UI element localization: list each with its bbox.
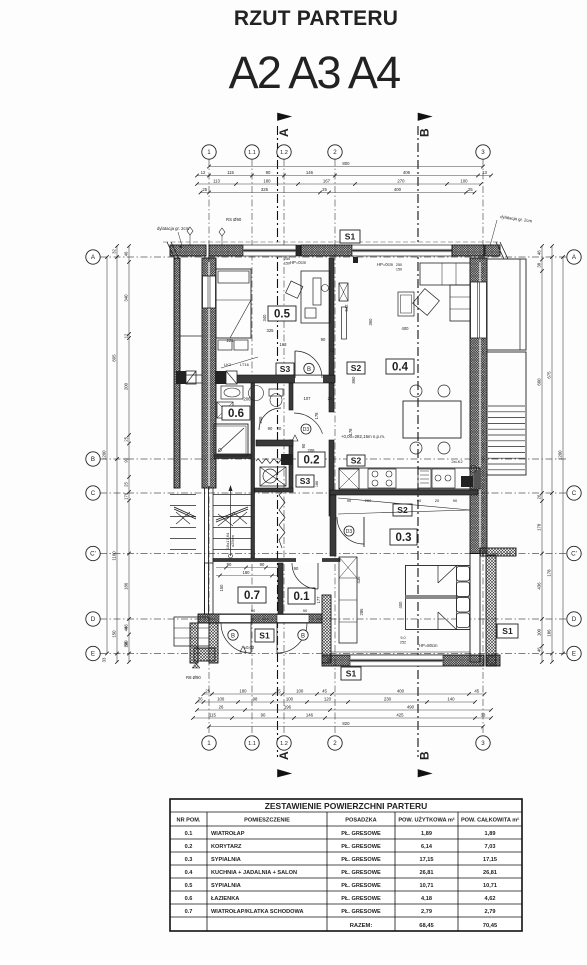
svg-text:HP=0cm: HP=0cm (377, 262, 394, 267)
svg-text:436: 436 (537, 582, 542, 590)
desk in room 0.5 (301, 271, 330, 323)
svg-text:HP=0cm: HP=0cm (290, 260, 307, 265)
svg-text:2: 2 (333, 149, 337, 156)
svg-text:1.2: 1.2 (280, 741, 288, 747)
svg-text:KORYTARZ: KORYTARZ (211, 844, 242, 850)
svg-text:98: 98 (253, 697, 258, 702)
section flag B bottom (418, 770, 432, 778)
bedroom 0.3 floor line above bottom wall (331, 651, 470, 653)
corridor wall piece lower (289, 440, 293, 492)
svg-text:425: 425 (396, 713, 404, 718)
svg-text:163: 163 (280, 342, 288, 347)
pier in top wall (296, 245, 301, 256)
staircase going line with arrow (230, 487, 232, 556)
svg-text:25: 25 (124, 482, 129, 487)
neighbour entry porch bottom-left (174, 617, 209, 646)
svg-text:146: 146 (306, 170, 314, 175)
window in top wall (room 0.4) (352, 245, 452, 256)
svg-text:1,89: 1,89 (485, 831, 496, 837)
svg-text:0.5: 0.5 (185, 883, 193, 889)
dining table (403, 401, 461, 438)
svg-text:186: 186 (315, 481, 319, 487)
svg-text:90: 90 (321, 337, 326, 342)
staircase treads (213, 494, 251, 496)
svg-text:S1: S1 (259, 631, 270, 641)
washbasin (221, 386, 243, 399)
svg-text:68,45: 68,45 (419, 923, 434, 929)
svg-text:4,18: 4,18 (421, 896, 432, 902)
svg-text:0.4: 0.4 (392, 362, 409, 374)
svg-text:C': C' (571, 551, 577, 558)
svg-text:0.3: 0.3 (185, 857, 193, 863)
porch left wall hatched (209, 623, 218, 663)
svg-text:542: 542 (344, 304, 349, 312)
svg-text:250: 250 (396, 263, 402, 267)
interior wall under room 0.5 (216, 375, 335, 383)
top exterior wall with hatching (170, 245, 206, 256)
svg-text:3: 3 (481, 740, 485, 747)
left exterior wall of unit (202, 258, 216, 488)
svg-text:26: 26 (219, 705, 224, 710)
svg-text:±0,02: ±0,02 (244, 645, 255, 650)
svg-text:S1: S1 (502, 626, 513, 636)
roof overhang dashed line above top wall (163, 241, 500, 243)
svg-text:45: 45 (474, 689, 479, 694)
svg-text:200: 200 (124, 382, 129, 390)
label S3 lower (296, 475, 314, 487)
svg-text:177: 177 (316, 596, 321, 604)
svg-text:178: 178 (314, 412, 319, 420)
door 0.5 to hall S3 (295, 351, 322, 378)
svg-text:860: 860 (351, 376, 356, 384)
svg-text:S3: S3 (300, 476, 311, 486)
svg-text:178: 178 (124, 492, 129, 500)
window in bottom wall of 0.3 (350, 655, 443, 666)
svg-text:70,45: 70,45 (483, 923, 498, 929)
dining chairs (410, 385, 422, 397)
svg-text:90: 90 (294, 566, 299, 571)
svg-text:B: B (301, 633, 305, 639)
wardrobe in 0.3 (339, 557, 357, 643)
wall right of bathroom (251, 383, 255, 558)
svg-text:115: 115 (209, 713, 216, 718)
sink unit (418, 469, 431, 488)
svg-text:10,71: 10,71 (420, 883, 434, 889)
coffee table (398, 292, 414, 316)
svg-text:178: 178 (537, 523, 542, 531)
svg-text:196: 196 (284, 705, 292, 710)
svg-text:9,0: 9,0 (400, 636, 405, 640)
svg-text:0.1: 0.1 (185, 831, 193, 837)
svg-text:150: 150 (219, 584, 224, 592)
svg-text:325: 325 (267, 328, 275, 333)
svg-text:115: 115 (227, 170, 234, 175)
svg-text:RS Ø90: RS Ø90 (226, 217, 242, 222)
svg-text:25: 25 (276, 689, 281, 694)
svg-text:HP=80cm: HP=80cm (419, 643, 438, 648)
svg-text:A2 A3 A4: A2 A3 A4 (229, 47, 401, 98)
svg-text:1.1: 1.1 (248, 150, 256, 156)
svg-text:260: 260 (365, 498, 372, 503)
label S2 in 0.3 (393, 504, 412, 516)
right dimension chains (541, 246, 543, 662)
svg-text:0.7: 0.7 (244, 590, 260, 602)
svg-text:E: E (91, 651, 95, 658)
svg-text:25: 25 (202, 187, 207, 192)
svg-text:400: 400 (398, 601, 403, 609)
svg-text:46: 46 (537, 647, 542, 652)
svg-text:436: 436 (356, 576, 361, 584)
svg-text:0.2: 0.2 (304, 455, 320, 467)
door from 0.2 to 0.1 (292, 563, 318, 589)
svg-text:2: 2 (333, 740, 337, 747)
washing machine (217, 402, 233, 418)
svg-text:SYPIALNIA: SYPIALNIA (211, 883, 241, 889)
left dimension chains (128, 246, 130, 662)
svg-text:POW. CAŁKOWITA m²: POW. CAŁKOWITA m² (461, 817, 519, 824)
armchair rotated (413, 289, 440, 316)
neighbour A3 stairwell outline right (487, 259, 526, 350)
wall above rooms 0.7/0.1 (213, 559, 340, 562)
svg-text:90: 90 (261, 713, 266, 718)
svg-text:12: 12 (330, 348, 335, 353)
svg-text:0.2: 0.2 (185, 844, 193, 850)
svg-text:1: 1 (207, 740, 211, 747)
label S1 bottom (341, 667, 361, 680)
svg-text:2xLK2: 2xLK2 (451, 459, 463, 464)
svg-text:PŁ. GRESOWE: PŁ. GRESOWE (341, 831, 381, 837)
svg-text:1.2: 1.2 (280, 150, 288, 156)
fridge (339, 469, 359, 489)
bottom wall of bedroom 0.3 (322, 655, 484, 666)
label S1 porch (255, 629, 274, 642)
kitchen counter (339, 468, 480, 489)
entry door circles B (228, 630, 238, 640)
svg-text:146: 146 (306, 713, 314, 718)
svg-text:895: 895 (112, 354, 117, 362)
svg-text:0.7: 0.7 (185, 909, 193, 915)
svg-text:90: 90 (301, 443, 306, 448)
wall between 0.5 and 0.4 on axis 2 (329, 258, 334, 375)
dark appliance LK2 (461, 476, 473, 487)
svg-text:252: 252 (400, 641, 406, 645)
svg-text:140: 140 (447, 697, 455, 702)
neighbour A1 wall stubs (180, 335, 202, 337)
svg-text:180: 180 (243, 570, 251, 575)
break marks top-right wall end (496, 242, 504, 259)
section flag A top (278, 113, 292, 121)
area table ZESTAWIENIE POWIERZCHNI PARTERU (170, 799, 522, 931)
svg-text:180: 180 (263, 179, 271, 184)
svg-text:RAZEM:: RAZEM: (350, 923, 373, 929)
bed sheet folds (437, 566, 439, 584)
svg-text:820: 820 (342, 721, 350, 726)
sofa L-shaped (420, 263, 470, 285)
anchor diamonds on top wall (187, 227, 193, 235)
bedside tables under bed (218, 340, 232, 350)
svg-text:100: 100 (537, 628, 542, 636)
svg-text:0.6: 0.6 (185, 896, 193, 902)
neighbour staircase treads (170, 494, 196, 496)
svg-text:2,79: 2,79 (485, 909, 496, 915)
svg-text:D: D (572, 616, 577, 623)
svg-text:186: 186 (124, 582, 129, 590)
svg-text:46: 46 (124, 251, 129, 256)
svg-text:S1: S1 (346, 669, 357, 679)
room label 0.5 (268, 306, 296, 321)
round fixture (249, 386, 264, 401)
label S1 top (340, 230, 360, 243)
svg-text:0.4: 0.4 (185, 870, 194, 876)
svg-text:90: 90 (124, 457, 129, 462)
svg-text:6,14: 6,14 (421, 844, 433, 850)
hob with 4 burners (368, 469, 396, 488)
svg-text:230: 230 (384, 697, 392, 702)
svg-text:90: 90 (347, 498, 352, 503)
svg-text:33: 33 (481, 713, 486, 718)
door circle D3 (301, 424, 311, 434)
svg-text:POMIESZCZENIE: POMIESZCZENIE (244, 818, 290, 824)
shaft square with circle in landing (260, 467, 286, 486)
svg-text:180: 180 (239, 689, 247, 694)
horizontal grid axes (100, 256, 567, 258)
svg-text:270: 270 (397, 179, 405, 184)
svg-text:LK2: LK2 (224, 362, 232, 367)
svg-text:325: 325 (261, 187, 269, 192)
svg-text:45: 45 (322, 689, 327, 694)
svg-text:S2: S2 (351, 456, 362, 466)
svg-text:B: B (418, 751, 432, 760)
svg-text:S2: S2 (397, 505, 408, 515)
label S2 kitchen (347, 455, 365, 466)
svg-text:E: E (572, 651, 576, 658)
wall stub at C' right (480, 548, 516, 556)
svg-text:A: A (277, 751, 291, 760)
svg-text:25: 25 (205, 689, 210, 694)
svg-text:150: 150 (284, 262, 290, 266)
svg-text:17,15: 17,15 (420, 857, 434, 863)
svg-text:A: A (277, 128, 291, 137)
svg-text:90: 90 (227, 562, 232, 567)
break marks top-left wall end (167, 242, 175, 259)
svg-text:ŁAZIENKA: ŁAZIENKA (211, 896, 239, 902)
svg-text:7,03: 7,03 (485, 844, 496, 850)
window in right wall room 0.4 (471, 282, 487, 338)
svg-text:38: 38 (537, 262, 542, 267)
section line B-B (417, 126, 419, 757)
door circle D3 bedroom (344, 526, 354, 536)
svg-text:26,81: 26,81 (483, 870, 497, 876)
svg-text:90: 90 (453, 498, 458, 503)
stairwell party wall thin lines (204, 488, 206, 614)
top dimension chains (209, 166, 483, 168)
svg-text:167: 167 (323, 179, 331, 184)
svg-text:250: 250 (284, 257, 290, 261)
svg-text:WIATROŁAP/KLATKA SCHODOWA: WIATROŁAP/KLATKA SCHODOWA (211, 909, 304, 915)
svg-text:208: 208 (258, 416, 263, 424)
svg-text:46: 46 (537, 250, 542, 255)
door 0.3 (337, 517, 364, 544)
grid bubbles left (86, 250, 100, 264)
bed in room 0.5 (216, 269, 251, 338)
svg-text:C: C (572, 490, 577, 497)
WC (269, 389, 283, 396)
room label 0.1 (288, 588, 315, 604)
top wall beyond axis 3 (unit A3) (485, 245, 500, 256)
svg-text:340: 340 (262, 314, 267, 322)
svg-text:PŁ. GRESOWE: PŁ. GRESOWE (341, 844, 381, 850)
svg-text:B: B (231, 633, 235, 639)
flue boxes in wall (215, 371, 226, 384)
svg-text:10,71: 10,71 (483, 883, 497, 889)
svg-text:PŁ. GRESOWE: PŁ. GRESOWE (341, 857, 381, 863)
bathroom door (259, 408, 281, 430)
svg-text:POSADZKA: POSADZKA (345, 818, 376, 824)
neighbour porch hatch (194, 648, 215, 661)
svg-text:90: 90 (303, 608, 308, 613)
svg-text:NR POM.: NR POM. (177, 818, 201, 824)
svg-text:S1: S1 (345, 232, 356, 242)
svg-text:4,62: 4,62 (485, 896, 496, 902)
wall left of bedroom 0.3 (330, 495, 336, 556)
svg-text:100: 100 (286, 697, 294, 702)
svg-text:33: 33 (102, 657, 107, 662)
svg-text:RZUT PARTERU: RZUT PARTERU (234, 7, 398, 30)
svg-text:KUCHNIA + JADALNIA + SALON: KUCHNIA + JADALNIA + SALON (211, 870, 297, 876)
bathroom bottom wall (214, 454, 251, 459)
svg-text:800: 800 (342, 161, 350, 166)
porch right wall hatched (322, 595, 331, 663)
svg-text:120: 120 (324, 697, 332, 702)
room 0.7 left wall (205, 563, 214, 614)
svg-text:25: 25 (124, 436, 129, 441)
flue stub below window (353, 257, 358, 263)
horizontal break zigzag on landing (256, 459, 288, 464)
svg-text:178: 178 (348, 428, 353, 436)
room label 0.6 (222, 406, 250, 420)
svg-text:3: 3 (481, 149, 485, 156)
svg-text:LT16: LT16 (240, 362, 250, 367)
section line A-A (277, 126, 279, 757)
svg-text:WIATROŁAP: WIATROŁAP (211, 831, 245, 837)
svg-text:1: 1 (207, 149, 211, 156)
svg-text:D3: D3 (346, 529, 353, 535)
svg-text:90: 90 (260, 562, 265, 567)
svg-text:0.1: 0.1 (294, 591, 311, 603)
svg-text:20: 20 (277, 426, 282, 431)
svg-text:286: 286 (359, 608, 364, 616)
wall axis C between 0.4 and 0.3 (330, 490, 478, 495)
svg-text:SYPIALNIA: SYPIALNIA (211, 857, 241, 863)
svg-text:100: 100 (296, 689, 304, 694)
svg-text:90: 90 (266, 170, 271, 175)
entry doors with arcs (221, 623, 251, 653)
svg-text:R8 Ø90: R8 Ø90 (186, 675, 201, 680)
svg-text:490: 490 (407, 705, 415, 710)
label S2 at axis 2 (347, 362, 365, 374)
left neighbour wall A1 (174, 258, 180, 488)
right wall lower part along bedroom 0.3 (470, 554, 480, 663)
stairwell inner line (519, 259, 521, 350)
svg-text:113: 113 (213, 179, 220, 184)
svg-text:360: 360 (368, 318, 373, 326)
WC nook wall (289, 383, 293, 410)
wall axis 2 lower (corridor/kitchen to 0.4) (329, 383, 334, 412)
svg-text:1100: 1100 (112, 551, 117, 561)
staircase handrail (216, 507, 248, 520)
svg-text:B: B (91, 456, 95, 463)
wall between 0.7 and 0.1 (278, 563, 283, 614)
neighbour staircase handrail (174, 507, 196, 517)
room label 0.2 (298, 452, 325, 467)
section flag A bottom (278, 770, 292, 778)
chair at desk (286, 281, 303, 298)
window in top wall (room 0.5) (243, 245, 296, 256)
svg-text:675: 675 (547, 371, 552, 379)
svg-text:36: 36 (198, 697, 203, 702)
grid bubbles bottom (202, 736, 216, 750)
svg-text:D: D (91, 616, 96, 623)
svg-text:400: 400 (394, 187, 402, 192)
svg-text:660: 660 (537, 378, 542, 386)
door symbol circle B upper (304, 363, 314, 373)
vertical grid axes (208, 159, 210, 736)
window in left wall room 0.5 (203, 276, 216, 308)
entry wall at axis D (198, 614, 322, 623)
svg-text:ZESTAWIENIE POWIERZCHNI PARTER: ZESTAWIENIE POWIERZCHNI PARTERU (265, 801, 428, 811)
double bed in 0.3 (406, 566, 471, 630)
right exterior wall of unit / party wall (470, 258, 487, 554)
svg-text:223: 223 (227, 338, 235, 343)
neighbour porch left wall hatched (190, 623, 198, 663)
svg-text:13: 13 (482, 170, 487, 175)
bottom wall beyond axis 3 (486, 655, 500, 666)
svg-text:B: B (418, 128, 432, 137)
dim chains inside 0.7 (216, 567, 277, 569)
svg-text:PŁ. GRESOWE: PŁ. GRESOWE (341, 883, 381, 889)
svg-text:0.6: 0.6 (228, 408, 244, 420)
svg-text:25: 25 (468, 187, 473, 192)
svg-text:26,81: 26,81 (420, 870, 434, 876)
break zigzag line in corridor (279, 492, 285, 548)
room label 0.7 (238, 587, 266, 603)
svg-text:107: 107 (304, 396, 312, 401)
svg-text:100: 100 (460, 179, 468, 184)
room label 0.4 (386, 359, 414, 374)
svg-text:208: 208 (308, 448, 316, 453)
svg-text:25: 25 (328, 396, 333, 401)
svg-text:0.5: 0.5 (274, 309, 291, 321)
grid bubbles right (567, 250, 581, 264)
svg-text:C': C' (90, 551, 96, 558)
neighbour A3 stair treads (488, 405, 525, 407)
label S1 right (497, 624, 518, 638)
svg-text:400: 400 (397, 689, 405, 694)
svg-text:x25cm: x25cm (230, 534, 235, 546)
TV bar (342, 307, 347, 339)
svg-text:1200: 1200 (558, 450, 563, 460)
svg-text:100: 100 (217, 697, 225, 702)
svg-text:PŁ. GRESOWE: PŁ. GRESOWE (341, 896, 381, 902)
svg-text:17,15: 17,15 (483, 857, 497, 863)
svg-text:150: 150 (112, 630, 117, 638)
room label 0.3 (390, 529, 417, 545)
svg-text:1200: 1200 (102, 450, 107, 460)
svg-text:D3: D3 (303, 427, 310, 433)
slope wedge lines (338, 498, 470, 510)
landing bottom wall (255, 488, 294, 492)
flue box near 0.2 (281, 454, 293, 465)
